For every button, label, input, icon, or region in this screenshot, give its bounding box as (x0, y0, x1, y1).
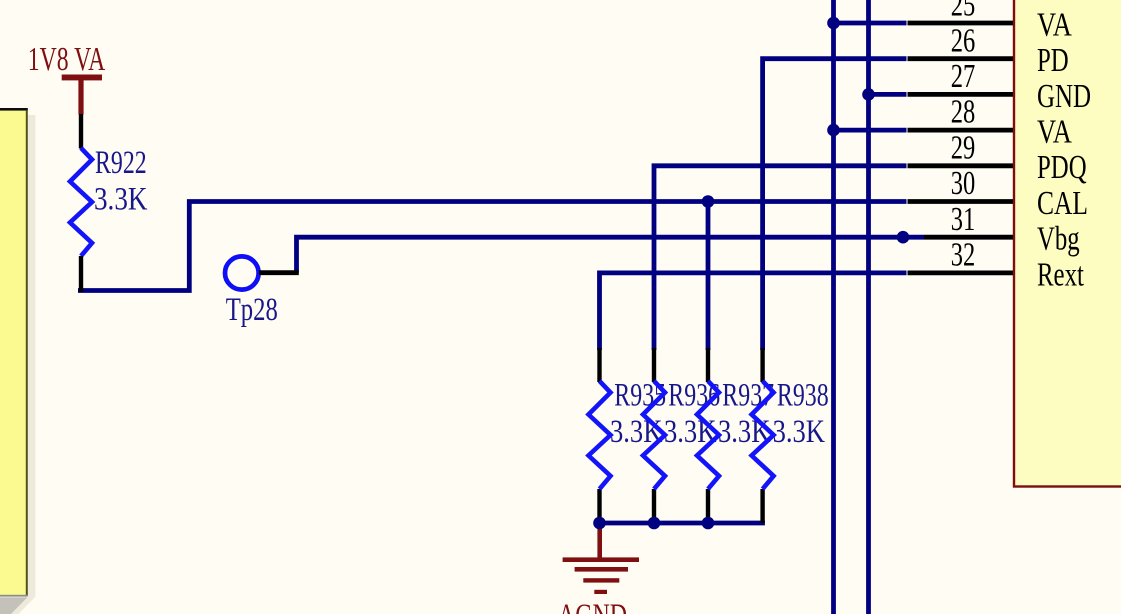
svg-text:30: 30 (951, 165, 976, 202)
resistor R935 leads (597, 348, 601, 382)
resistor R922 body (70, 148, 92, 256)
junction ground bus at R935 (593, 517, 606, 530)
pin 32 line (908, 270, 1014, 275)
svg-text:32: 32 (951, 237, 976, 274)
svg-text:AGND: AGND (558, 598, 627, 614)
svg-text:VA: VA (1037, 114, 1072, 151)
ground AGND stem (597, 523, 602, 558)
ground AGND bar 2 (575, 567, 628, 572)
svg-text:PD: PD (1037, 42, 1069, 79)
resistor R937 leads (706, 348, 710, 382)
power port 1V8 VA bar (62, 75, 102, 115)
resistor R936 leads (652, 348, 656, 382)
wire vertical bus V1 x=833.5 (831, 0, 836, 614)
ground AGND bar 3 (583, 578, 619, 582)
wire ground bus under resistors (597, 521, 765, 526)
svg-text:3.3K: 3.3K (773, 414, 826, 450)
junction on V1 at pin28 (827, 124, 840, 137)
ground AGND bar 4 (594, 590, 607, 594)
svg-text:GND: GND (1037, 78, 1091, 115)
junction on V1 at pin25 (827, 17, 840, 30)
svg-text:31: 31 (951, 201, 976, 238)
wire to pin 32 (net Rext, down to R935) (600, 273, 907, 350)
wire to pin 25 (832, 21, 907, 26)
svg-text:27: 27 (951, 58, 976, 95)
resistor R936 body (643, 381, 665, 489)
resistor R935 body (589, 381, 611, 489)
sheet symbol shadow band (left sheet symbol) (11, 115, 36, 614)
wire vertical bus V2 x=868.5 (866, 0, 871, 614)
svg-text:Rext: Rext (1037, 256, 1084, 293)
pin 27 line (908, 92, 1014, 97)
ground AGND bar 1 (563, 557, 639, 562)
svg-text:25: 25 (951, 0, 976, 24)
wire to pin 27 (866, 92, 907, 97)
wire to pin 29 (net PDQ, down to R936) (654, 166, 907, 350)
svg-text:28: 28 (951, 94, 976, 131)
svg-text:29: 29 (951, 129, 976, 166)
svg-text:1V8 VA: 1V8 VA (28, 41, 106, 78)
test point Tp28 lead (259, 270, 299, 275)
pin 28 line (908, 128, 1014, 133)
svg-text:VA: VA (1037, 6, 1072, 43)
wire to pin 26 (net PD, down to R938) (763, 59, 907, 350)
wire to pin 28 (832, 128, 907, 133)
resistor R938 body (752, 381, 774, 489)
svg-text:3.3K: 3.3K (94, 182, 148, 218)
sheet symbol shadow (left sheet symbol, gray corner) (0, 597, 28, 614)
wire branch CAL to R937 (706, 202, 711, 351)
svg-text:R922: R922 (95, 145, 147, 181)
pin 26 line (908, 56, 1014, 61)
IC block U (right, partially visible) (1014, 0, 1121, 487)
pin 31 line (924, 235, 1013, 240)
test point Tp28 circle (225, 256, 259, 289)
junction ground bus at R937 (702, 517, 715, 530)
pin 29 line (908, 163, 1014, 168)
junction on V2 at pin27 (862, 88, 875, 101)
svg-text:R938: R938 (777, 377, 829, 413)
svg-text:Tp28: Tp28 (226, 292, 278, 328)
wire net Vbg: Tp28 to pin 31 (297, 237, 925, 272)
resistor R938 leads (760, 348, 764, 382)
junction at wire end, pin31 (Vbg) (897, 231, 910, 244)
svg-text:Vbg: Vbg (1037, 221, 1080, 258)
resistor R922 bottom lead (79, 256, 83, 292)
svg-text:26: 26 (951, 22, 976, 59)
wire net CAL: R922 bottom to pin 30 (78, 202, 907, 291)
pin 30 line (908, 199, 1014, 204)
svg-text:PDQ: PDQ (1037, 149, 1087, 186)
junction CAL / R937 (702, 195, 715, 208)
pin 25 line (908, 21, 1014, 26)
junction ground bus at R936 (648, 517, 661, 530)
sheet symbol (left, partially visible) (0, 108, 28, 597)
resistor R922 top lead (79, 114, 83, 149)
resistor R937 body (697, 381, 719, 489)
svg-text:CAL: CAL (1037, 185, 1088, 222)
